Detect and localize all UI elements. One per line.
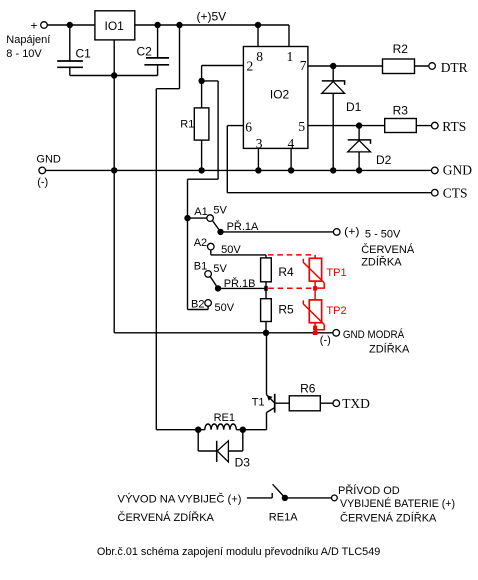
svg-text:RTS: RTS	[442, 119, 466, 134]
svg-text:R4: R4	[278, 265, 294, 279]
svg-text:5: 5	[298, 119, 305, 134]
svg-text:D2: D2	[376, 153, 392, 167]
svg-text:1: 1	[287, 49, 294, 64]
svg-text:PŘ.1A: PŘ.1A	[227, 220, 259, 233]
svg-text:C2: C2	[137, 44, 153, 58]
svg-text:DTR: DTR	[441, 60, 468, 75]
svg-text:ČERVENÁ: ČERVENÁ	[361, 243, 415, 256]
svg-text:GND: GND	[443, 162, 472, 177]
svg-text:TP2: TP2	[326, 305, 346, 317]
svg-text:Napájení: Napájení	[6, 34, 50, 46]
svg-text:B2: B2	[191, 299, 204, 311]
svg-text:8 - 10V: 8 - 10V	[6, 48, 42, 60]
svg-text:4: 4	[288, 136, 295, 151]
svg-text:B1: B1	[194, 261, 207, 273]
svg-text:7: 7	[300, 58, 307, 73]
svg-text:50V: 50V	[215, 302, 235, 314]
svg-text:(-): (-)	[320, 335, 331, 347]
svg-text:ZDÍŘKA: ZDÍŘKA	[369, 343, 410, 356]
svg-text:(+): (+)	[344, 226, 359, 238]
svg-text:R5: R5	[278, 303, 294, 317]
svg-text:VÝVOD NA VYBIJEČ (+): VÝVOD NA VYBIJEČ (+)	[118, 492, 242, 505]
svg-text:RE1: RE1	[214, 412, 235, 424]
svg-text:ČERVENÁ ZDÍŘKA: ČERVENÁ ZDÍŘKA	[118, 511, 215, 524]
svg-text:VYBIJENÉ BATERIE (+): VYBIJENÉ BATERIE (+)	[340, 497, 455, 510]
svg-text:5 - 50V: 5 - 50V	[365, 228, 401, 240]
svg-text:50V: 50V	[221, 244, 241, 256]
svg-text:GND: GND	[36, 154, 61, 166]
svg-text:(+)5V: (+)5V	[197, 10, 227, 24]
svg-text:R6: R6	[300, 382, 316, 396]
svg-text:A1: A1	[194, 206, 207, 218]
svg-text:5V: 5V	[213, 263, 227, 275]
svg-text:A2: A2	[194, 237, 207, 249]
svg-text:(-): (-)	[37, 176, 48, 188]
svg-text:ZDÍŘKA: ZDÍŘKA	[361, 256, 402, 269]
svg-text:6: 6	[245, 119, 252, 134]
svg-text:R2: R2	[393, 42, 409, 56]
svg-text:TXD: TXD	[342, 396, 370, 411]
svg-text:IO2: IO2	[270, 88, 290, 102]
svg-text:C1: C1	[76, 47, 92, 61]
svg-text:T1: T1	[252, 396, 265, 408]
svg-text:D1: D1	[346, 100, 362, 114]
svg-text:8: 8	[256, 49, 263, 64]
svg-text:D3: D3	[235, 456, 251, 470]
svg-text:5V: 5V	[213, 205, 227, 217]
svg-text:2: 2	[247, 59, 254, 74]
svg-text:ČERVENÁ ZDÍŘKA: ČERVENÁ ZDÍŘKA	[340, 511, 437, 524]
svg-text:3: 3	[256, 136, 263, 151]
svg-text:PŘÍVOD OD: PŘÍVOD OD	[338, 484, 400, 497]
svg-text:R3: R3	[393, 104, 409, 118]
svg-text:GND MODRÁ: GND MODRÁ	[343, 328, 405, 341]
svg-text:PŘ.1B: PŘ.1B	[224, 277, 256, 290]
svg-text:+: +	[31, 19, 38, 33]
svg-text:R1: R1	[180, 119, 194, 131]
svg-text:IO1: IO1	[105, 19, 125, 33]
svg-text:TP1: TP1	[326, 267, 346, 279]
svg-text:RE1A: RE1A	[269, 511, 298, 523]
svg-text:Obr.č.01 schéma zapojení modul: Obr.č.01 schéma zapojení modulu převodní…	[97, 546, 380, 558]
svg-text:CTS: CTS	[443, 185, 468, 200]
